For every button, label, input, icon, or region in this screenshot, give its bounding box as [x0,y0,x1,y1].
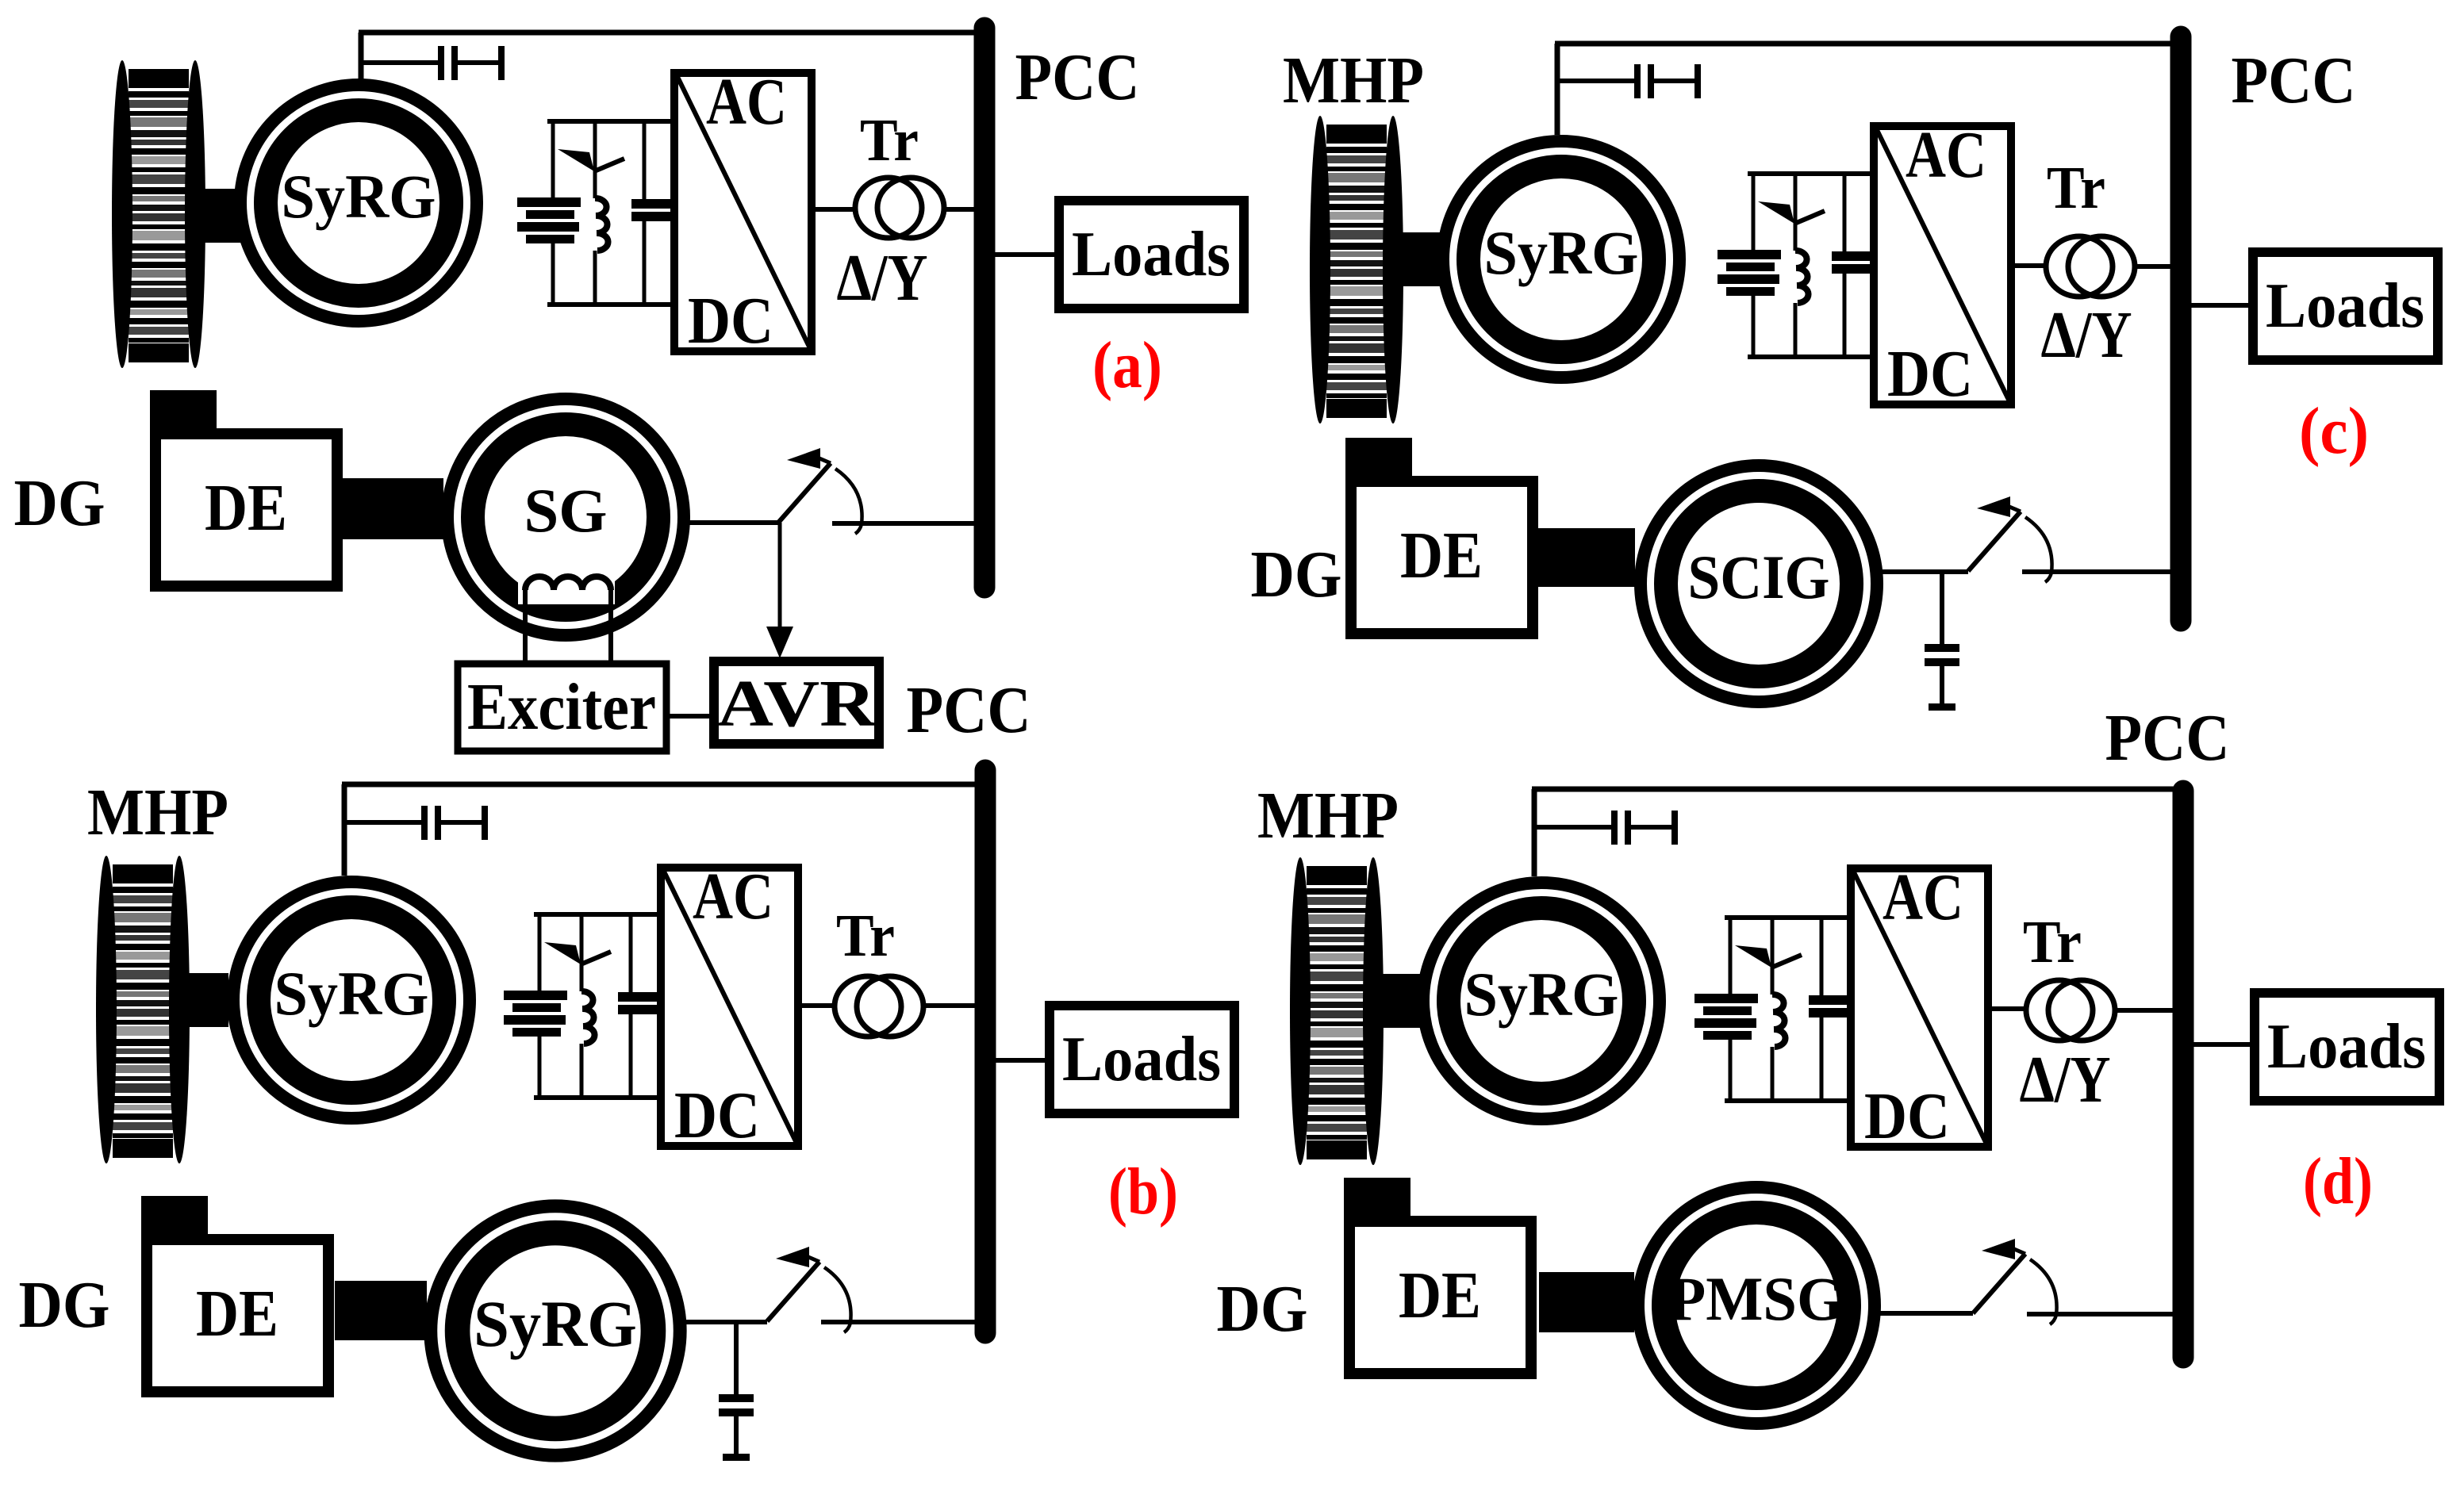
wire top feeder to PCC (b) [342,782,985,788]
micro-hydro turbine flywheel (c) [1310,116,1403,423]
svg-text:DG: DG [14,466,106,540]
wire AC/DC to Tr (d) [1992,1006,2025,1011]
generator SyRG (c) [1443,141,1679,377]
svg-text:MHP: MHP [87,776,228,849]
svg-text:Δ/Y: Δ/Y [2020,1043,2111,1117]
wire top feeder to PCC (c) [1555,41,2181,47]
PCC bus (a) [974,28,996,588]
field winding of SG (a) [518,558,615,604]
wire switch to PCC bus (b) [821,1320,975,1324]
svg-text:DE: DE [205,471,287,545]
svg-text:AC: AC [693,860,773,933]
wire PMSG to switch (d) [1879,1311,1973,1316]
shaft DE-PMSG (d) [1539,1272,1634,1332]
svg-text:PCC: PCC [2232,44,2356,117]
svg-text:PMSG: PMSG [1669,1264,1844,1333]
shaft turbine-SyRG (d) [1378,974,1421,1028]
excitation capacitor bank with TCR (d) [1694,915,1848,1103]
svg-text:(d): (d) [2303,1144,2373,1218]
wire bus to Loads (a) [995,252,1055,257]
svg-text:AC: AC [1906,118,1986,192]
shaft turbine-SyRG (b) [184,973,228,1027]
svg-text:AVR: AVR [717,667,877,741]
shaft turbine-SyRG (a) [200,189,241,243]
wire switch to PCC bus (a) [832,521,974,526]
wire SG to switch (a) [689,520,778,525]
shaft turbine-SyRG (c) [1398,232,1441,286]
generator SyRG (d) [1423,883,1660,1119]
capacitor C stub (d) [1537,811,1678,845]
svg-text:PCC: PCC [907,673,1031,747]
svg-text:SyRG: SyRG [474,1288,637,1360]
wire Tr to PCC bus (a) [946,207,974,212]
wire SyRG top riser (c) [1555,44,1560,135]
wire Tr to PCC bus (d) [2117,1008,2173,1013]
capacitor C stub (b) [347,806,488,840]
wire AC/DC to Tr (b) [800,1003,833,1008]
svg-text:SyRG: SyRG [282,162,436,231]
wire SyRG top riser (b) [342,784,347,876]
wire Exciter to AVR (a) [666,714,714,719]
svg-text:DC: DC [1887,337,1973,411]
transformer Tr (b) [835,976,923,1037]
wire SyRG top riser (d) [1532,789,1537,876]
svg-text:SG: SG [524,476,608,545]
capacitor C stub (c) [1560,64,1701,98]
wire top feeder to PCC (a) [359,30,984,36]
sense line to AVR with arrow (a) [766,523,793,658]
AVR box (a) [714,661,879,744]
svg-text:Tr: Tr [2023,909,2082,975]
transformer Tr (d) [2026,980,2115,1041]
svg-text:DE: DE [1400,519,1483,592]
wire bus to Loads (d) [2193,1042,2251,1047]
svg-text:MHP: MHP [1257,779,1399,853]
generator SyRG of DG (b) [431,1206,680,1455]
diesel engine DE (d) [1344,1178,1531,1374]
generator PMSG (d) [1638,1187,1875,1424]
svg-text:Loads: Loads [1062,1025,1221,1094]
wire bus to Loads (b) [996,1058,1046,1063]
Exciter box (a) [458,664,666,751]
converter AC/DC (d) [1851,860,1988,1153]
generator SG (a) [447,399,684,635]
converter AC/DC (b) [661,860,798,1152]
transformer Tr (a) [855,178,944,238]
diesel engine DE (c) [1345,438,1533,634]
breaker switch (c) [1968,496,2052,582]
wire SG field to Exciter left lead (a) [523,588,528,661]
excitation capacitor bank with TCR (b) [504,912,657,1100]
svg-text:SCIG: SCIG [1688,542,1830,611]
Loads box (c) [2253,252,2438,360]
shaft DE-SyRG (b) [335,1281,427,1340]
converter AC/DC (a) [674,65,812,358]
svg-text:PCC: PCC [1015,40,1140,114]
wire bus to Loads (c) [2191,303,2249,308]
svg-text:Loads: Loads [1072,220,1230,289]
svg-text:DE: DE [196,1277,278,1351]
diesel engine DE (a) [150,390,337,586]
PCC bus (d) [2173,791,2194,1358]
svg-text:Tr: Tr [2047,155,2105,221]
PCC bus (c) [2170,36,2192,621]
breaker switch (a) [778,448,862,534]
micro-hydro turbine flywheel (a) [112,60,205,368]
wire SyRG top riser (a) [359,33,364,82]
shaft DE-SCIG (c) [1537,528,1635,587]
wire AC/DC to Tr (a) [816,207,855,212]
svg-text:SyRG: SyRG [274,959,429,1028]
wire SCIG to switch (c) [1883,569,1968,574]
generator SyRG (a) [240,85,477,321]
breaker switch (b) [767,1247,851,1332]
svg-text:DC: DC [688,284,773,358]
svg-text:PCC: PCC [2105,701,2230,775]
wire switch to PCC bus (c) [2022,569,2171,574]
svg-text:Δ/Y: Δ/Y [837,241,928,315]
svg-text:DG: DG [1217,1272,1308,1346]
Loads box (a) [1059,201,1244,309]
svg-text:SyRG: SyRG [1484,218,1639,287]
wire AC/DC to Tr (c) [2015,263,2044,268]
svg-text:Δ/Y: Δ/Y [2041,298,2132,372]
shaft DE-SG (a) [342,478,443,539]
shunt capacitor to ground (b) [719,1322,754,1461]
micro-hydro turbine flywheel (b) [96,856,190,1163]
svg-text:DG: DG [1251,538,1342,611]
diesel engine DE (b) [141,1196,328,1392]
svg-text:(a): (a) [1092,328,1162,402]
excitation capacitor bank with TCR (c) [1718,171,1871,359]
breaker switch (d) [1973,1239,2057,1324]
svg-text:Loads: Loads [2267,1012,2426,1082]
wire top feeder to PCC (d) [1532,787,2183,792]
svg-text:Tr: Tr [836,903,895,969]
svg-text:Exciter: Exciter [467,670,656,744]
excitation capacitor bank with TCR (a) [517,119,670,307]
svg-text:Tr: Tr [860,107,919,174]
capacitor C stub (a) [363,46,505,80]
svg-text:DC: DC [674,1079,760,1152]
svg-text:DC: DC [1864,1079,1950,1153]
generator SyRG (b) [233,882,470,1118]
transformer Tr (c) [2046,236,2135,297]
svg-text:Loads: Loads [2266,271,2424,341]
shunt capacitor to ground (c) [1925,572,1959,711]
svg-text:AC: AC [706,65,787,139]
converter AC/DC (c) [1874,118,2011,411]
svg-text:MHP: MHP [1283,44,1424,117]
svg-text:SyRG: SyRG [1464,960,1619,1029]
wire switch to PCC bus (d) [2027,1312,2173,1316]
PCC bus (b) [975,770,996,1333]
wire SyRG to switch (b) [685,1320,767,1324]
svg-text:DE: DE [1399,1259,1481,1332]
svg-text:(b): (b) [1108,1155,1178,1228]
micro-hydro turbine flywheel (d) [1290,857,1384,1165]
svg-text:(c): (c) [2299,394,2369,468]
wire SG field to Exciter right lead (a) [608,588,613,661]
generator SCIG (c) [1641,466,1877,702]
wire Tr to PCC bus (c) [2136,264,2171,269]
svg-text:AC: AC [1883,860,1963,934]
svg-text:DG: DG [19,1268,110,1342]
Loads box (b) [1050,1006,1234,1113]
Loads box (d) [2255,993,2439,1101]
wire Tr to PCC bus (b) [925,1003,975,1008]
